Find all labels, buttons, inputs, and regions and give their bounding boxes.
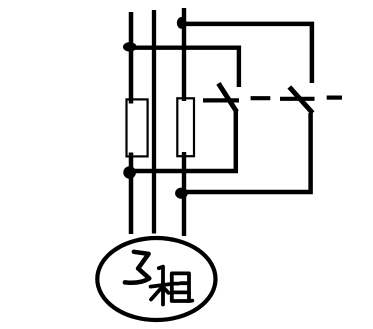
- fuse F2 wire stubs: [182, 99, 186, 155]
- label "3" handwritten: [125, 252, 149, 283]
- wire H3 switch S1 bottom lead to node on L1: [129, 111, 235, 171]
- wire H2 from node on L3 to switch S2 top lead: [182, 24, 312, 83]
- mechanical link dashed line between S1 and S2: [203, 98, 342, 101]
- fuse F2 on line L3: [177, 98, 194, 156]
- wire L2 phase line 2 (vertical): [152, 10, 156, 234]
- switch S1 blade: [218, 83, 236, 111]
- wire L1 phase line 1 (vertical): [129, 12, 134, 234]
- node B junction dot L3/H2: [177, 17, 187, 29]
- fuse F1 wire stubs: [129, 100, 134, 155]
- node A junction dot L1/H1: [123, 42, 137, 52]
- label "相" character: [151, 267, 193, 305]
- node D junction dot L3/H4: [175, 188, 188, 199]
- wire H4 switch S2 bottom lead to node on L3: [181, 113, 310, 192]
- wire H1 from node on L1 to switch S1 top lead: [130, 48, 239, 87]
- switch S2 blade: [289, 87, 312, 113]
- node C junction dot L1/H3: [123, 166, 136, 179]
- fuse F1 on line L1: [127, 99, 148, 156]
- motor M ellipse (3-phase load): [97, 238, 215, 320]
- wire L3 phase line 3 (vertical): [182, 8, 186, 236]
